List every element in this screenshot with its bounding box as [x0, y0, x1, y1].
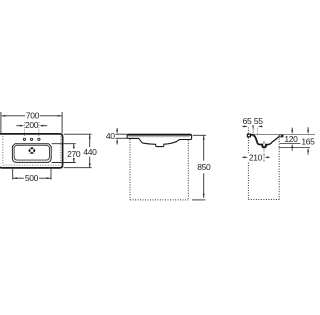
dimension 270 (bowl depth front-back) — [52, 144, 76, 163]
dimension 120 (rim to underside) — [291, 128, 293, 131]
drain hole — [29, 147, 36, 154]
hidden edge right (dotted) — [60, 136, 62, 164]
dimension 850 (height to floor) — [192, 135, 206, 200]
svg-text:200: 200 — [25, 120, 39, 130]
washbasin outer rim rectangle — [0, 134, 63, 168]
hidden edge bottom (dotted) — [4, 164, 61, 166]
cabinet hidden outline (side view, dashed) — [248, 128, 279, 200]
hidden edge left (dotted) — [2, 136, 4, 165]
svg-text:40: 40 — [106, 131, 115, 141]
drain centreline (dash-dot) — [263, 141, 265, 162]
dimension 55 (fixing to tap hole) — [262, 125, 263, 127]
tap hole centre — [30, 138, 32, 140]
dimension 65 (wall to fixing) — [242, 125, 244, 127]
basin back rim section — [247, 134, 250, 137]
rim top section line — [253, 133, 315, 135]
cabinet hidden outline (front view, dashed) — [130, 139, 188, 200]
dimension 40 (rim thickness) — [115, 128, 128, 145]
svg-text:850: 850 — [197, 162, 211, 172]
shared tick between 65 and 55 — [252, 125, 254, 128]
dimension 165 (rim to lower edge) — [307, 127, 309, 130]
dimension 440 (overall depth) — [64, 134, 92, 168]
svg-text:165: 165 — [301, 136, 315, 146]
basin front rim section — [279, 135, 284, 138]
dimension 500 (bowl width) — [13, 169, 51, 180]
bowl recess outer outline — [12, 144, 51, 163]
dimension 210 (wall to drain centre) — [242, 156, 244, 158]
basin top edge (thick) — [128, 134, 192, 136]
tap hole right — [38, 138, 40, 140]
dimension 700 (overall width) — [1, 112, 62, 133]
dimension 200 (tap hole spacing) — [25, 122, 39, 137]
bowl side profile — [250, 135, 268, 147]
svg-text:65: 65 — [243, 116, 252, 126]
svg-text:120: 120 — [284, 134, 298, 144]
bowl recess inner outline — [14, 145, 49, 160]
svg-text:210: 210 — [249, 152, 263, 162]
deck edge line — [129, 136, 190, 138]
svg-text:500: 500 — [25, 173, 39, 183]
basin front profile — [127, 134, 192, 146]
svg-text:55: 55 — [254, 116, 263, 126]
svg-text:270: 270 — [67, 149, 81, 159]
svg-text:440: 440 — [83, 147, 97, 157]
tap hole left — [23, 138, 25, 140]
